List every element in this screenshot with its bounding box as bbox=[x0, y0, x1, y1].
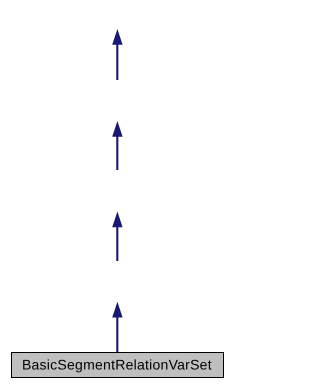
arrow 1 (top) bbox=[112, 29, 122, 80]
arrow 3 bbox=[112, 212, 122, 262]
node box BasicSegmentRelationVarSet bbox=[12, 353, 224, 378]
inheritance graph bbox=[0, 0, 235, 384]
arrow 2 bbox=[112, 121, 122, 170]
svg-text:BasicSegmentRelationVarSet: BasicSegmentRelationVarSet bbox=[22, 357, 212, 373]
arrow 4 (bottom) bbox=[112, 302, 122, 352]
